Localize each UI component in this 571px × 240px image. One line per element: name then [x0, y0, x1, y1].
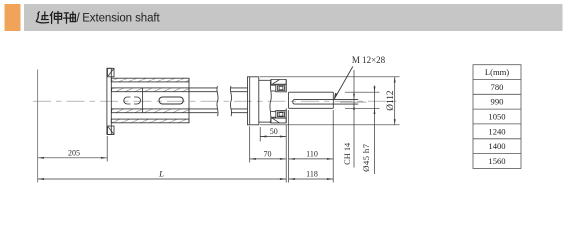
dimension 205	[38, 157, 108, 159]
inner bar lines beyond tube	[189, 87, 217, 89]
outer tube bottom wall	[111, 119, 189, 123]
cylinder left extension line	[249, 126, 251, 162]
big cylinder	[248, 77, 259, 125]
O112 extension lines	[260, 76, 400, 78]
svg-text:1400: 1400	[488, 141, 505, 151]
housing break wavy	[270, 80, 271, 123]
centerline	[33, 100, 399, 102]
svg-text:990: 990	[491, 97, 504, 107]
svg-text:CH 14: CH 14	[343, 142, 352, 165]
flange face extension line	[106, 136, 108, 162]
bottom bearing races	[276, 111, 286, 119]
bar lines after break	[231, 87, 248, 89]
svg-text:110: 110	[306, 149, 318, 158]
svg-text:70: 70	[264, 149, 272, 158]
svg-text:Ø112: Ø112	[386, 90, 396, 111]
O112 dimension vertical	[394, 77, 396, 125]
shaft keyway lines	[293, 99, 334, 104]
slot 2 (open left)	[134, 97, 141, 104]
svg-text:Extension shaft: Extension shaft	[82, 13, 160, 25]
inner bar bottom wall	[112, 109, 190, 113]
dimension 70	[250, 158, 287, 160]
outer tube right end	[188, 78, 190, 123]
svg-text:50: 50	[270, 127, 278, 136]
svg-text:1560: 1560	[488, 156, 505, 166]
break squiggle left	[217, 86, 218, 116]
bearing housing outline	[259, 79, 271, 81]
O45 dimension vertical	[374, 86, 376, 175]
shaft body	[289, 91, 334, 93]
bearing right extension lines	[285, 125, 287, 183]
dimension L	[38, 178, 287, 180]
glyph shen	[50, 12, 61, 24]
svg-text:/: /	[76, 11, 80, 25]
glyph yan	[36, 12, 48, 23]
50 left extension line	[259, 127, 261, 142]
svg-text:118: 118	[306, 170, 318, 179]
inner bar joint line	[142, 88, 144, 113]
table frame	[473, 65, 521, 169]
slot 3 long	[159, 97, 183, 104]
svg-text:L(mm): L(mm)	[485, 67, 509, 77]
CH14 dimension vertical	[353, 70, 355, 168]
dimension 118	[289, 178, 334, 180]
flange plate	[107, 68, 111, 134]
dimension texts	[68, 55, 396, 178]
svg-text:M 12×28: M 12×28	[352, 55, 386, 65]
thread core gray line	[340, 101, 366, 103]
M12x28 leader	[334, 67, 353, 100]
svg-text:1240: 1240	[488, 126, 505, 136]
top bearing housing cap	[271, 80, 286, 85]
break squiggle right	[230, 86, 231, 116]
svg-text:780: 780	[491, 82, 504, 92]
shaft end extension line	[332, 110, 334, 183]
glyph zhou	[64, 12, 76, 23]
slot 1 (open right)	[124, 97, 131, 104]
inner bar top wall	[112, 88, 190, 92]
dimension 110	[289, 158, 334, 160]
flange top tab	[108, 68, 115, 77]
outer tube top wall	[111, 78, 189, 82]
svg-text:L: L	[158, 169, 164, 179]
header CJK text (drawn strokes)	[36, 12, 75, 24]
svg-text:205: 205	[68, 148, 80, 157]
svg-text:1050: 1050	[488, 112, 505, 122]
left extension line	[37, 70, 39, 183]
dimension 50	[260, 136, 286, 138]
O45 extension lines	[345, 91, 380, 93]
header orange square	[5, 4, 21, 31]
top bearing races	[276, 84, 286, 92]
header gray bar	[24, 4, 563, 31]
bottom bearing housing cap	[271, 118, 286, 123]
svg-text:Ø45 h7: Ø45 h7	[361, 143, 371, 171]
hex flat lines right of end	[333, 98, 358, 100]
flange bottom tab	[108, 126, 115, 135]
